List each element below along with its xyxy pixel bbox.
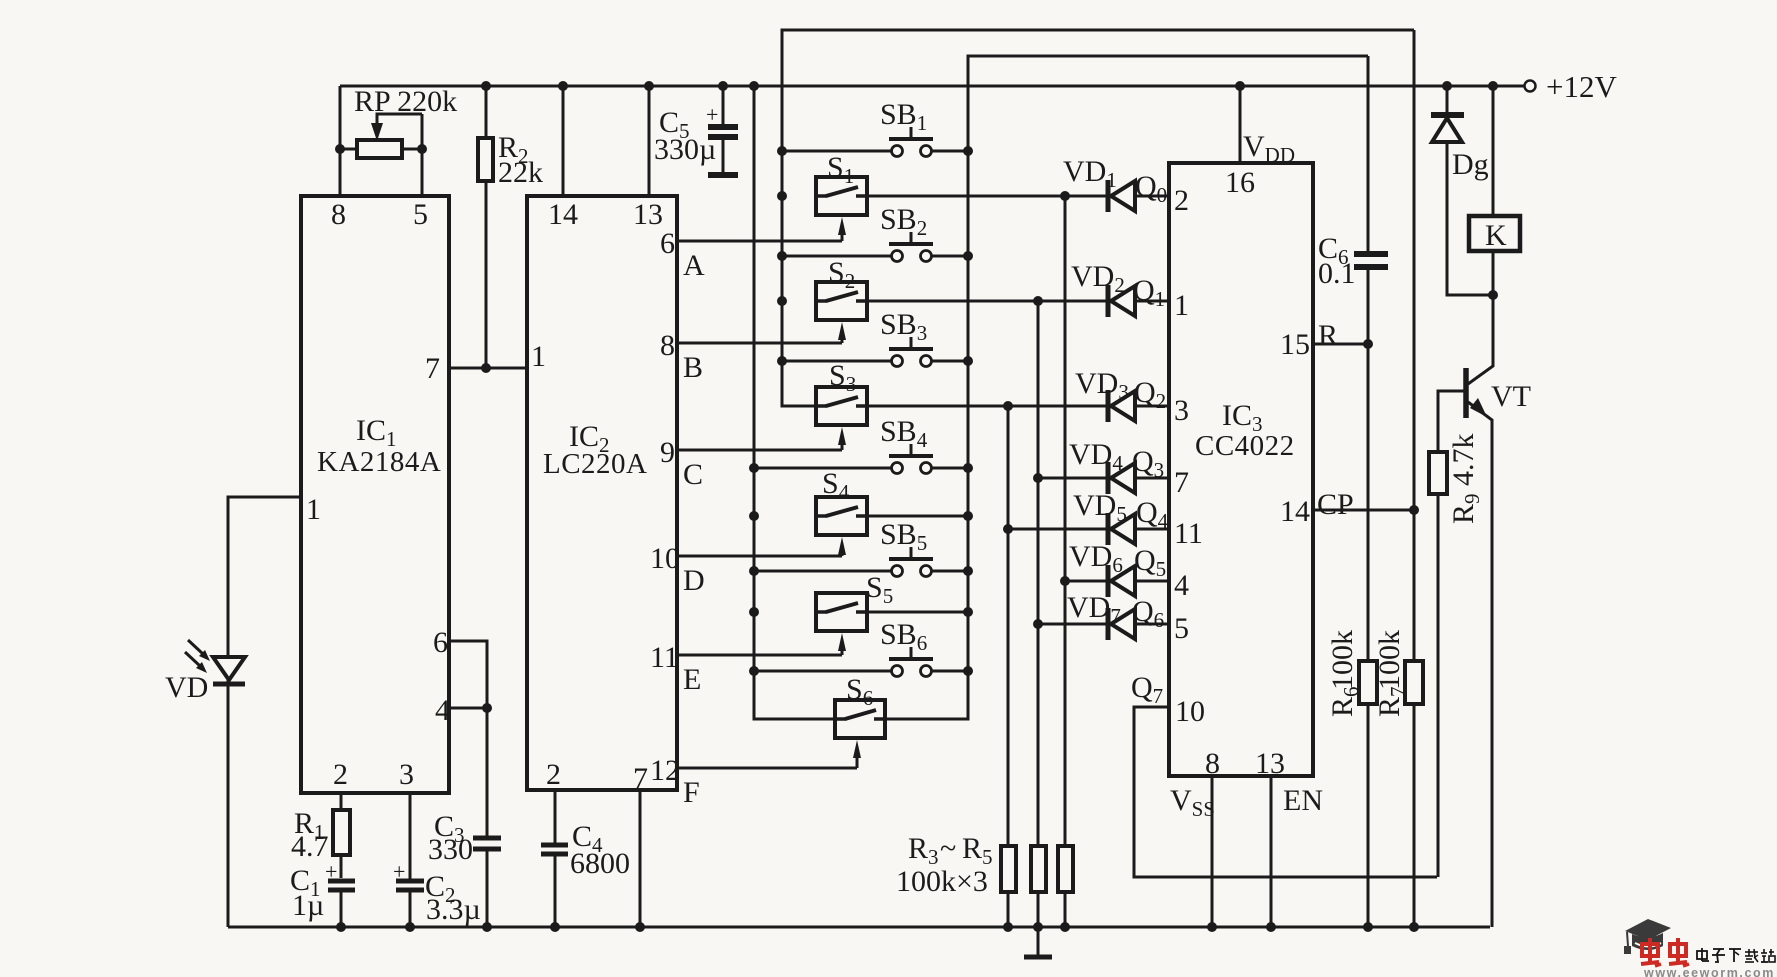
node rail L1 junctions [777, 146, 787, 156]
svg-text:B: B [683, 351, 703, 384]
svg-text:10: 10 [650, 542, 680, 575]
decoder IC2 LC220A box [527, 196, 677, 790]
svg-text:4.7: 4.7 [291, 830, 329, 863]
svg-text:CC4022: CC4022 [1195, 430, 1295, 462]
svg-text:2: 2 [546, 758, 561, 791]
wire diode row VD6 [1065, 580, 1108, 583]
capacitor C3 330 [473, 836, 501, 841]
svg-text:+: + [325, 859, 337, 884]
wire rail from loop line1 down to S3 [782, 30, 816, 406]
wire diode row VD5 [1008, 528, 1108, 531]
diode VD4 [1108, 462, 1135, 494]
resistor R5 [1058, 846, 1073, 892]
node line C / VD4 junction [1033, 473, 1043, 483]
capacitor C4 6800 [541, 843, 568, 848]
capacitor C5 330µ [722, 86, 725, 127]
diode VD3 [1108, 390, 1135, 422]
wire RP left lead [340, 148, 357, 151]
svg-text:www.eeworm.com: www.eeworm.com [1643, 966, 1775, 977]
svg-text:1: 1 [1174, 289, 1189, 322]
wiper arrow into S2 [838, 322, 846, 343]
resistor R2 22k [485, 86, 488, 138]
wiper arrow into S3 [838, 427, 846, 450]
svg-text:C: C [683, 458, 703, 491]
capacitor C2 3.3µ [409, 793, 412, 881]
wire IC2 pin12 output F [677, 767, 857, 770]
wire IC1 pin1 to photodiode VD [228, 497, 301, 655]
svg-text:4: 4 [1174, 569, 1189, 602]
resistor R4 [1031, 846, 1046, 892]
wire +12V power rail [340, 85, 1524, 88]
svg-text:11: 11 [1174, 517, 1203, 550]
node S1/line D junction [1060, 191, 1070, 201]
wire IC2 pin8 output B [677, 342, 842, 345]
node relay/Dg/collector junction [1488, 290, 1498, 300]
svg-text:330µ: 330µ [654, 133, 716, 166]
switch S5 [816, 593, 867, 631]
svg-text:+: + [393, 859, 405, 884]
wire diode row VD1 [1135, 195, 1169, 198]
wire IC2 pin9 output C [677, 449, 842, 452]
wire loop line 1 (CP feedback, top) [782, 30, 1414, 151]
wire IC1 pin6/pin4 junction to C3 [449, 641, 487, 838]
wire IC2 pin10 output D [677, 555, 842, 558]
svg-text:1: 1 [306, 493, 321, 526]
wire diode row VD2 [1135, 300, 1169, 303]
svg-text:16: 16 [1225, 166, 1255, 199]
wire VSS pin8 riser [1211, 776, 1214, 927]
resistor R9 4.7k [1438, 391, 1466, 452]
wire emitter [1468, 402, 1492, 927]
wiper arrow into S5 [838, 633, 846, 655]
relay K [1492, 86, 1495, 216]
svg-text:22k: 22k [498, 156, 543, 189]
pushbutton SB3 [782, 337, 968, 367]
svg-text:100k: 100k [1326, 630, 1359, 690]
node line C / VD7 junction [1033, 619, 1043, 629]
svg-text:A: A [683, 249, 705, 282]
wire pin14 CP to loop line1 [1313, 509, 1414, 512]
svg-text:4: 4 [435, 694, 450, 727]
label R9 4.7k (vertical) [1447, 493, 1484, 524]
svg-text:KA2184A: KA2184A [317, 446, 441, 478]
wiper arrow into S4 [838, 537, 846, 556]
svg-text:15: 15 [1280, 328, 1310, 361]
svg-text:14: 14 [1280, 495, 1310, 528]
svg-text:100k×3: 100k×3 [896, 865, 988, 898]
watermark 虫 character 2 [1669, 938, 1689, 966]
svg-text:6: 6 [660, 227, 675, 260]
svg-text:3: 3 [399, 758, 414, 791]
switch S6 [835, 700, 885, 738]
wire IC1 pin8 riser [339, 86, 342, 196]
resistor R3 [1001, 846, 1016, 892]
op-amp IC1 KA2184A box [301, 196, 449, 793]
wire S1 output to VD1 [867, 195, 1108, 198]
svg-text:14: 14 [548, 198, 578, 231]
pushbutton SB6 [754, 647, 968, 677]
potentiometer RP 220k body [357, 140, 402, 158]
counter IC3 CC4022 box [1169, 163, 1313, 776]
capacitor C1 1µ [328, 879, 355, 884]
node rail A junctions [963, 146, 973, 156]
pushbutton SB1 [782, 127, 968, 157]
diode VD5 [1108, 513, 1135, 545]
wire IC2 pin6 output A [677, 240, 842, 243]
svg-text:2: 2 [1174, 184, 1189, 217]
svg-text:F: F [683, 776, 700, 809]
wire pin15 R to C6 net [1313, 343, 1368, 346]
diode VD7 [1108, 608, 1135, 640]
svg-text:1µ: 1µ [292, 889, 324, 922]
wire IC2 pin7 riser [639, 790, 642, 927]
svg-text:0.1: 0.1 [1318, 257, 1356, 290]
svg-text:11: 11 [650, 641, 679, 674]
photodiode VD symbol [185, 640, 245, 927]
wire ground rail [228, 926, 1490, 929]
wire IC2 pin2 riser [554, 790, 557, 845]
transistor VT [1463, 368, 1469, 418]
ground symbol [1037, 927, 1040, 955]
wire VDD riser pin16 [1239, 86, 1242, 163]
wire R7 vertical from loop line1 [1413, 30, 1416, 661]
svg-text:VT: VT [1491, 380, 1531, 413]
watermark logo graduation cap [1624, 919, 1671, 954]
node rail L2 junctions [749, 463, 759, 473]
svg-text:100k: 100k [1373, 630, 1406, 690]
resistor R6 100k [1359, 661, 1377, 704]
svg-text:330: 330 [428, 833, 473, 866]
svg-text:D: D [683, 564, 705, 597]
svg-text:R: R [1318, 319, 1338, 352]
node S3/line B junction [1003, 401, 1013, 411]
svg-text:+12V: +12V [1546, 69, 1617, 104]
svg-text:12: 12 [650, 754, 680, 787]
svg-text:~: ~ [940, 832, 956, 865]
wire collector [1468, 295, 1493, 384]
label R6 100k (vertical) [1326, 686, 1363, 717]
svg-text:6: 6 [433, 626, 448, 659]
svg-text:CP: CP [1317, 488, 1354, 521]
wire S4 output to rail A [867, 515, 968, 518]
svg-text:6800: 6800 [570, 847, 630, 880]
svg-text:3: 3 [1174, 394, 1189, 427]
wire diode row VD4 [1038, 477, 1108, 480]
node R2 bottom junction [481, 363, 491, 373]
wire C6/R6 vertical from loop line2 [1367, 56, 1370, 254]
svg-text:9: 9 [660, 436, 675, 469]
svg-text:13: 13 [633, 198, 663, 231]
terminal +12V open circle [1525, 81, 1536, 92]
svg-text:7: 7 [1174, 466, 1189, 499]
svg-text:8: 8 [1205, 747, 1220, 780]
pushbutton SB5 [754, 547, 968, 577]
resistor R1 4.7 [340, 793, 343, 810]
wire IC2 pin11 output E [677, 654, 842, 657]
pushbutton SB4 [754, 444, 968, 474]
switch S4 [816, 497, 867, 535]
wire line B (S3 net) with resistor R3 [1007, 406, 1010, 846]
wire IC1 pin5 riser [421, 114, 424, 196]
svg-text:7: 7 [425, 352, 440, 385]
switch S3 [816, 387, 867, 425]
svg-text:5: 5 [1174, 612, 1189, 645]
watermark text 电子下载站 [1697, 948, 1775, 962]
svg-text:8: 8 [331, 198, 346, 231]
switch S1 [816, 177, 867, 215]
resistor R7 100k [1405, 661, 1423, 704]
node line D / VD6 junction [1060, 576, 1070, 586]
svg-text:RP 220k: RP 220k [354, 85, 457, 118]
pushbutton SB2 [782, 232, 968, 262]
wire diode row VD3 [1135, 405, 1169, 408]
wire line D (S1 net) with resistor R5 [1064, 196, 1067, 846]
wire rail A right of buttons [886, 56, 968, 719]
node line B / VD5 junction [1003, 524, 1013, 534]
svg-text:8: 8 [660, 329, 675, 362]
svg-text:EN: EN [1283, 784, 1323, 817]
svg-text:10: 10 [1175, 695, 1205, 728]
svg-text:Dg: Dg [1452, 148, 1489, 181]
diode Dg [1446, 86, 1449, 113]
wire RP wiper to pin5 [377, 114, 422, 136]
diode VD2 [1108, 285, 1135, 317]
wire Q7 pin10 to R9 bottom [1134, 707, 1437, 877]
wire S5 output to rail A [867, 611, 968, 614]
node power rail junctions [481, 81, 491, 91]
wire line C (S2 net) with resistor R4 [1037, 301, 1040, 846]
wire S3 output to VD3 [867, 405, 1107, 408]
diode VD6 [1108, 565, 1135, 597]
svg-text:K: K [1485, 219, 1507, 252]
RP wiper arrow [371, 123, 383, 141]
wire EN pin13 riser [1270, 776, 1273, 927]
svg-text:3.3µ: 3.3µ [426, 893, 481, 926]
svg-text:2: 2 [333, 758, 348, 791]
wiper arrow into S1 [838, 217, 846, 241]
watermark 虫 character 1 [1641, 938, 1661, 966]
wire IC2 pin13 riser [648, 86, 651, 196]
switch S2 [816, 282, 867, 320]
label R7 100k (vertical) [1373, 686, 1410, 717]
svg-text:LC220A: LC220A [543, 448, 648, 480]
node S2/line C junction [1033, 296, 1043, 306]
svg-text:1: 1 [531, 340, 546, 373]
wire IC1 pin7 to IC2 pin1 [449, 367, 527, 370]
wire rail from +12V down left of switches [754, 86, 835, 719]
node ground rail junctions [336, 922, 346, 932]
wiper arrow into S6 [853, 740, 861, 768]
svg-text:4.7k: 4.7k [1447, 434, 1480, 487]
wire IC2 pin14 riser [562, 86, 565, 196]
svg-text:E: E [683, 663, 701, 696]
svg-text:13: 13 [1255, 747, 1285, 780]
node pin4 junction [482, 703, 492, 713]
svg-text:+: + [706, 102, 718, 127]
svg-text:VD: VD [165, 671, 208, 704]
capacitor C6 0.1 [1354, 251, 1388, 257]
wire loop line 2 (R feedback) [968, 56, 1368, 151]
wire diode row VD7 [1038, 623, 1108, 626]
svg-text:5: 5 [413, 198, 428, 231]
diode VD1 [1108, 180, 1135, 212]
wire RP right lead [402, 148, 422, 151]
wire S2 output to VD2 [867, 300, 1107, 303]
